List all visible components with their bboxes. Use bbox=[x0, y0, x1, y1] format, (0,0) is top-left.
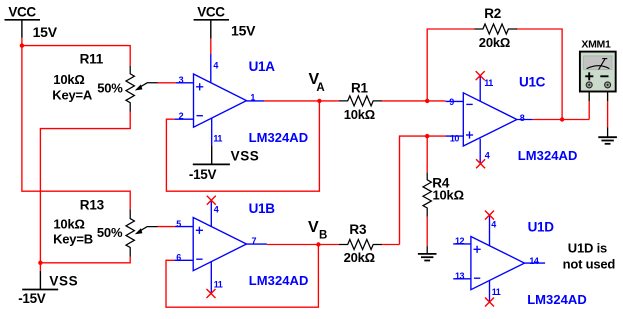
svg-text:LM324AD: LM324AD bbox=[249, 130, 309, 145]
svg-text:R13: R13 bbox=[80, 198, 105, 213]
svg-text:2: 2 bbox=[179, 111, 184, 121]
svg-text:11: 11 bbox=[214, 280, 223, 290]
svg-text:R2: R2 bbox=[484, 6, 501, 21]
svg-text:4: 4 bbox=[213, 61, 218, 71]
svg-text:VCC: VCC bbox=[197, 5, 225, 20]
svg-text:R3: R3 bbox=[349, 222, 367, 237]
svg-text:R11: R11 bbox=[80, 51, 104, 66]
svg-text:VSS: VSS bbox=[49, 273, 78, 288]
svg-text:50%: 50% bbox=[97, 80, 123, 95]
svg-text:Key=A: Key=A bbox=[52, 87, 93, 102]
svg-text:10: 10 bbox=[450, 134, 460, 144]
svg-text:R1: R1 bbox=[351, 80, 369, 95]
svg-text:14: 14 bbox=[529, 256, 539, 266]
svg-text:8: 8 bbox=[520, 113, 525, 123]
svg-text:B: B bbox=[319, 229, 327, 241]
svg-text:6: 6 bbox=[176, 253, 181, 263]
svg-text:U1A: U1A bbox=[249, 59, 276, 74]
svg-text:3: 3 bbox=[179, 75, 184, 85]
svg-text:VCC: VCC bbox=[8, 5, 36, 20]
svg-text:20kΩ: 20kΩ bbox=[344, 250, 375, 265]
svg-text:10kΩ: 10kΩ bbox=[53, 216, 84, 231]
svg-text:12: 12 bbox=[455, 236, 465, 246]
svg-text:50%: 50% bbox=[97, 225, 123, 240]
svg-text:4: 4 bbox=[214, 205, 219, 215]
svg-text:U1B: U1B bbox=[249, 201, 276, 216]
svg-text:4: 4 bbox=[491, 220, 496, 230]
svg-text:9: 9 bbox=[449, 97, 454, 107]
svg-text:20kΩ: 20kΩ bbox=[479, 35, 510, 50]
svg-text:1: 1 bbox=[250, 93, 255, 103]
svg-text:4: 4 bbox=[485, 150, 490, 160]
svg-text:U1D is: U1D is bbox=[568, 241, 607, 256]
svg-text:10kΩ: 10kΩ bbox=[344, 107, 375, 122]
svg-text:not used: not used bbox=[563, 257, 616, 272]
svg-text:Key=B: Key=B bbox=[53, 232, 93, 247]
svg-text:11: 11 bbox=[484, 78, 493, 88]
svg-text:15V: 15V bbox=[33, 24, 58, 40]
svg-text:LM324AD: LM324AD bbox=[527, 292, 587, 307]
svg-text:11: 11 bbox=[492, 287, 501, 297]
svg-text:V: V bbox=[308, 219, 319, 236]
svg-text:10kΩ: 10kΩ bbox=[53, 72, 84, 87]
svg-text:U1D: U1D bbox=[528, 219, 555, 234]
svg-text:LM324AD: LM324AD bbox=[518, 148, 578, 163]
svg-text:15V: 15V bbox=[231, 22, 256, 38]
svg-text:A: A bbox=[316, 82, 324, 94]
svg-text:13: 13 bbox=[455, 271, 465, 281]
svg-text:10kΩ: 10kΩ bbox=[433, 187, 464, 202]
svg-text:7: 7 bbox=[252, 236, 257, 246]
svg-text:11: 11 bbox=[213, 133, 222, 143]
svg-text:5: 5 bbox=[176, 219, 181, 229]
svg-text:VSS: VSS bbox=[231, 148, 260, 163]
svg-text:LM324AD: LM324AD bbox=[249, 273, 309, 288]
svg-text:U1C: U1C bbox=[519, 75, 546, 90]
svg-text:-15V: -15V bbox=[189, 167, 217, 182]
svg-text:-15V: -15V bbox=[18, 291, 46, 306]
svg-text:XMM1: XMM1 bbox=[581, 39, 611, 51]
